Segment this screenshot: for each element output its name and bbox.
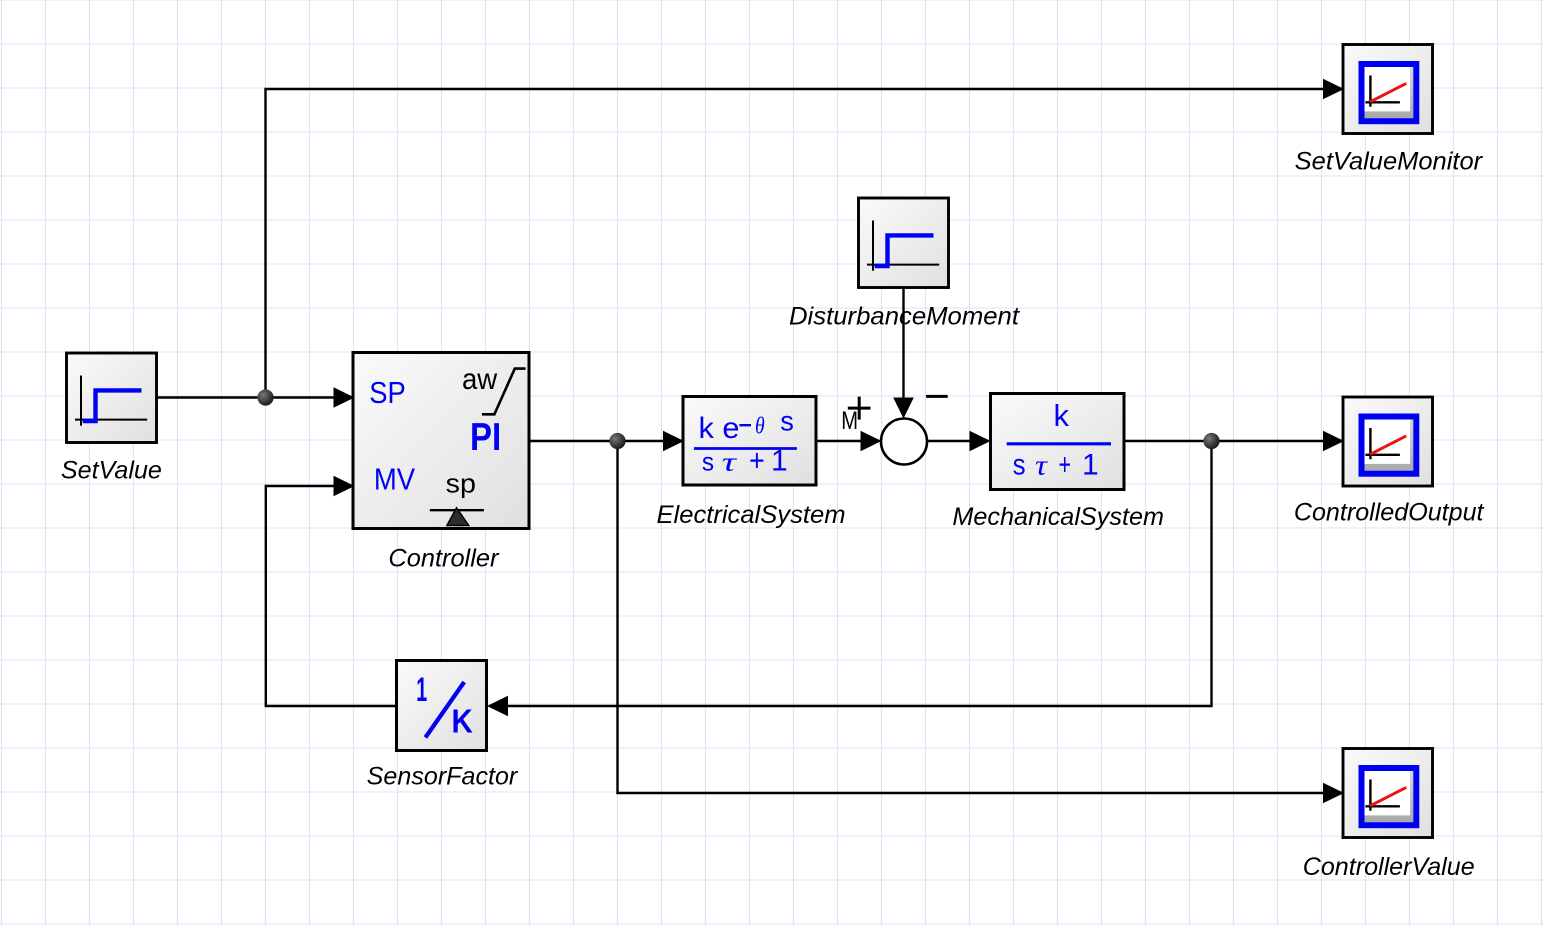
svg-text:DisturbanceMoment: DisturbanceMoment <box>789 303 1020 331</box>
wire SensorFactor to Controller.MV <box>266 476 397 706</box>
svg-text:SetValueMonitor: SetValueMonitor <box>1295 148 1484 176</box>
svg-text:+: + <box>749 443 765 478</box>
svg-text:s: s <box>702 446 714 476</box>
svg-text:1: 1 <box>771 445 788 478</box>
summing junction <box>841 396 947 464</box>
block SetValueMonitor (scope) <box>1343 45 1433 134</box>
svg-text:SP: SP <box>369 375 406 410</box>
block SetValue (step source) <box>67 353 157 443</box>
svg-text:ElectricalSystem: ElectricalSystem <box>657 501 846 529</box>
svg-text:SensorFactor: SensorFactor <box>367 763 519 791</box>
block ElectricalSystem (transfer function) <box>683 397 816 486</box>
svg-text:1: 1 <box>416 671 427 709</box>
wire SetValue to Controller.SP <box>157 387 355 408</box>
svg-text:k: k <box>1054 398 1070 433</box>
svg-text:τ: τ <box>1035 450 1049 482</box>
wire DisturbanceMoment to summing junction <box>893 289 914 419</box>
wire node C to SensorFactor <box>487 441 1212 716</box>
svg-text:SetValue: SetValue <box>61 457 162 485</box>
block MechanicalSystem (transfer function) <box>991 394 1125 490</box>
svg-text:s: s <box>1013 449 1026 482</box>
block SensorFactor (gain 1/K) <box>397 661 487 751</box>
wire MechanicalSystem to node C to ControlledOutput <box>1124 431 1344 452</box>
wire summing junction to MechanicalSystem <box>927 431 991 452</box>
svg-text:MV: MV <box>374 461 415 496</box>
wire ElectricalSystem to summing junction <box>816 431 882 452</box>
svg-text:aw: aw <box>462 363 497 396</box>
node B junction dot <box>609 433 625 449</box>
wire node A to SetValueMonitor <box>266 79 1345 398</box>
svg-text:sp: sp <box>446 468 476 498</box>
wire Controller output to node B <box>529 440 618 442</box>
wire node B to ElectricalSystem <box>618 431 685 452</box>
node A junction dot <box>257 389 273 405</box>
svg-text:ControllerValue: ControllerValue <box>1303 853 1475 881</box>
svg-text:θ: θ <box>755 414 765 440</box>
svg-text:s: s <box>780 406 794 437</box>
svg-text:K: K <box>452 703 473 740</box>
node C junction dot <box>1203 433 1219 449</box>
svg-text:1: 1 <box>1082 449 1099 482</box>
svg-text:ControlledOutput: ControlledOutput <box>1294 499 1485 527</box>
block ControlledOutput (scope) <box>1343 397 1433 486</box>
block ControllerValue (scope) <box>1343 749 1433 838</box>
block Controller (PI) <box>353 353 529 529</box>
svg-text:+: + <box>1059 447 1072 482</box>
svg-text:k e: k e <box>699 412 740 445</box>
block DisturbanceMoment (step source) <box>859 198 949 288</box>
svg-text:M: M <box>841 408 858 435</box>
svg-text:MechanicalSystem: MechanicalSystem <box>952 503 1164 531</box>
svg-text:Controller: Controller <box>388 545 500 573</box>
svg-text:PI: PI <box>470 416 501 459</box>
wire node B to ControllerValue <box>618 441 1345 803</box>
